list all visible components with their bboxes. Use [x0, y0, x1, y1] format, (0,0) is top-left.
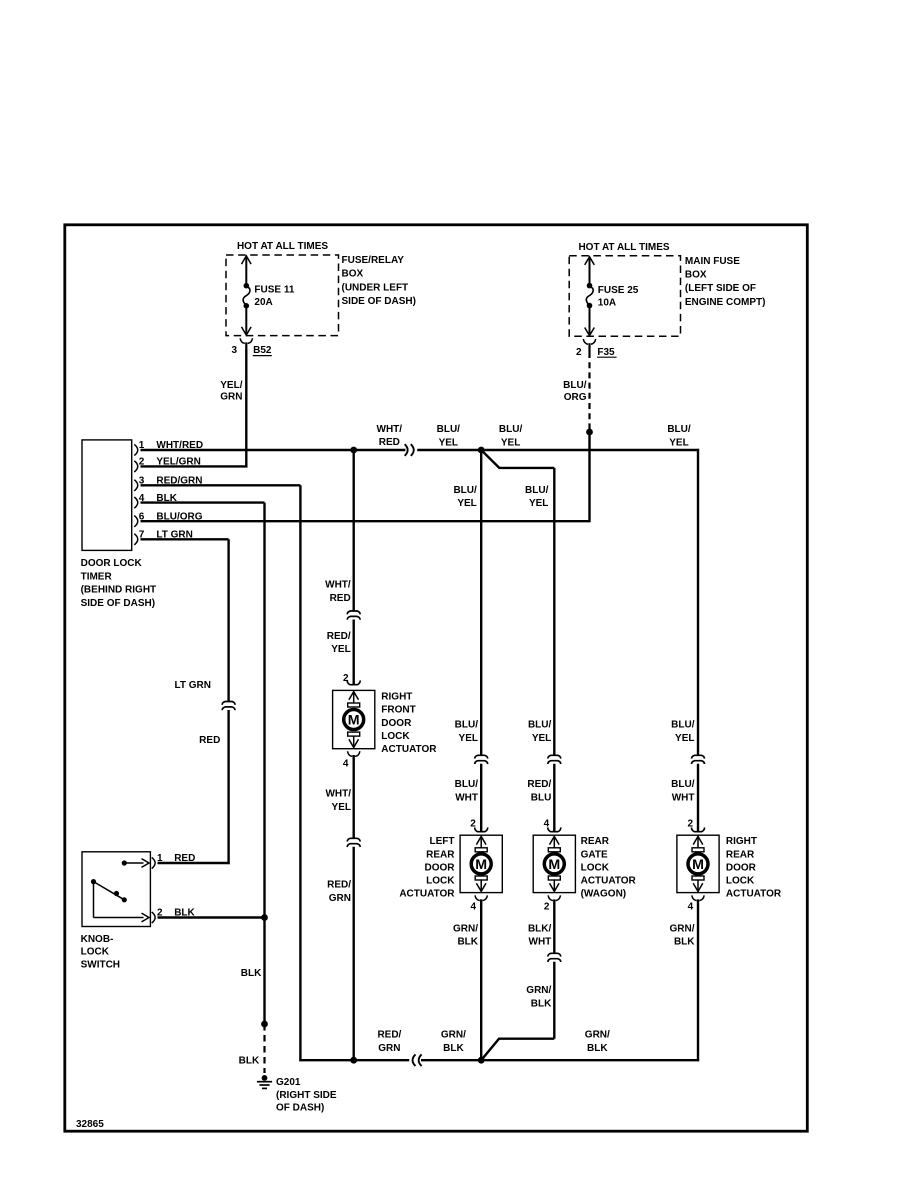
wire: bottom rail right segment (GRN/BLK)	[421, 1059, 699, 1061]
connector at rear gate actuator pin 4	[548, 827, 561, 831]
connector at right rear actuator pin 4	[692, 895, 697, 900]
svg-text:RED/: RED/	[327, 880, 351, 891]
svg-text:OF DASH): OF DASH)	[276, 1102, 324, 1113]
svg-text:BLU/: BLU/	[671, 719, 695, 730]
knob switch pin 1 connector	[152, 857, 155, 868]
svg-text:KNOB-: KNOB-	[81, 934, 114, 945]
wire: BLU/ORG dashed drop from F35	[588, 352, 590, 432]
junction dot WHT/RED branch	[350, 447, 357, 454]
svg-text:WHT: WHT	[672, 792, 695, 803]
main fuse box F35 enclosure (dashed)	[569, 256, 680, 336]
switch arrow to pin 1	[124, 862, 143, 864]
svg-text:BLU/: BLU/	[453, 485, 477, 496]
svg-text:BLU/: BLU/	[437, 424, 461, 435]
wire: GRN/BLK below left rear actuator	[480, 899, 482, 1060]
svg-text:YEL: YEL	[331, 644, 350, 655]
svg-text:DOOR LOCK: DOOR LOCK	[81, 558, 143, 569]
junction dot BLK splice	[261, 1021, 268, 1028]
wire: fuse 11 feed (vertical, arrows up/down)	[245, 256, 247, 284]
switch contact dot pin1	[122, 860, 127, 865]
in-line connector (BLU/YEL to BLU/WHT) left rear	[475, 755, 488, 758]
svg-text:BLU/: BLU/	[563, 380, 587, 391]
svg-text:LEFT: LEFT	[430, 836, 455, 847]
wire: BLU/ORG pin6 to fuse F35 drop	[141, 520, 590, 522]
svg-text:GATE: GATE	[581, 849, 608, 860]
svg-text:YEL: YEL	[457, 498, 476, 509]
in-line connector (WHT/YEL to RED/GRN)	[347, 838, 360, 841]
svg-text:2: 2	[576, 347, 582, 358]
wire: BLK pin4 down to knob switch junction	[141, 501, 265, 503]
connector at right front actuator pin 4	[348, 751, 353, 756]
svg-text:REAR: REAR	[581, 836, 610, 847]
svg-text:LT GRN: LT GRN	[175, 680, 211, 691]
wire: F35 pigtail	[588, 343, 590, 352]
svg-text:RED/: RED/	[527, 779, 551, 790]
svg-text:WHT: WHT	[529, 937, 552, 948]
svg-text:BLK: BLK	[531, 998, 552, 1009]
svg-text:1: 1	[157, 853, 163, 864]
svg-text:ACTUATOR: ACTUATOR	[399, 889, 455, 900]
wire: RED/GRN drop to bottom rail	[353, 847, 355, 1060]
junction dot BLU/YEL branch (left rear feed)	[478, 447, 485, 454]
svg-text:G201: G201	[276, 1077, 301, 1088]
svg-text:DOOR: DOOR	[381, 718, 412, 729]
svg-text:HOT AT ALL TIMES: HOT AT ALL TIMES	[237, 241, 328, 252]
connector at right rear actuator pin 2	[691, 827, 704, 831]
svg-text:4: 4	[470, 902, 476, 913]
svg-text:LOCK: LOCK	[726, 876, 755, 887]
switch common dot	[91, 879, 96, 884]
rear gate lock actuator U3	[533, 835, 575, 892]
svg-text:BLU/: BLU/	[528, 719, 552, 730]
svg-text:BLK/: BLK/	[528, 923, 552, 934]
in-line connector (BLU/YEL to BLU/WHT) right rear	[692, 755, 705, 758]
switch wire to pin 2	[93, 882, 95, 918]
timer pin 6 connector	[134, 516, 137, 527]
svg-text:F35: F35	[597, 347, 615, 358]
svg-text:(UNDER LEFT: (UNDER LEFT	[342, 282, 409, 293]
junction dot bottom rail at GRN/BLK merge	[478, 1057, 485, 1064]
connector at left rear actuator pin 2	[475, 827, 488, 831]
fuse F11 symbol	[244, 283, 250, 289]
svg-text:SWITCH: SWITCH	[81, 960, 120, 971]
wire: RED/GRN pin3 to bottom rail	[141, 484, 301, 486]
connector at rear gate actuator pin 2	[548, 895, 553, 900]
svg-text:RED: RED	[379, 437, 400, 448]
wire: BLK knob pin2 to junction	[158, 916, 265, 918]
svg-text:ACTUATOR: ACTUATOR	[726, 889, 782, 900]
svg-text:YEL: YEL	[669, 437, 688, 448]
svg-text:10A: 10A	[598, 298, 616, 309]
svg-text:20A: 20A	[254, 297, 272, 308]
svg-text:SIDE OF DASH): SIDE OF DASH)	[342, 296, 416, 307]
svg-text:YEL: YEL	[459, 733, 478, 744]
svg-text:BOX: BOX	[342, 269, 364, 280]
svg-text:WHT/: WHT/	[325, 789, 351, 800]
svg-text:(LEFT SIDE OF: (LEFT SIDE OF	[685, 283, 756, 294]
svg-text:4: 4	[688, 902, 694, 913]
svg-text:BLK: BLK	[241, 968, 262, 979]
wire: BLU/WHT into left rear actuator	[480, 764, 482, 832]
svg-text:GRN: GRN	[378, 1043, 400, 1054]
wire: BLK/WHT below rear gate actuator	[553, 899, 555, 953]
junction dot BLK	[261, 914, 268, 921]
svg-text:BLU/: BLU/	[499, 424, 523, 435]
wire: fuse 25 feed (vertical, arrows up/down)	[589, 257, 591, 285]
svg-text:BLU: BLU	[531, 792, 552, 803]
fuse/relay box B52 enclosure (dashed)	[226, 255, 339, 336]
svg-text:GRN: GRN	[220, 392, 242, 403]
switch blade (diagonal with dots)	[94, 882, 125, 900]
svg-text:MAIN FUSE: MAIN FUSE	[685, 256, 740, 267]
svg-text:YEL: YEL	[529, 498, 548, 509]
wire: RED/YEL into actuator pin 2	[353, 620, 355, 685]
svg-text:DOOR: DOOR	[726, 862, 757, 873]
svg-text:BLK: BLK	[443, 1043, 464, 1054]
ground G201 symbol	[262, 1075, 268, 1081]
svg-text:FUSE 11: FUSE 11	[254, 285, 294, 296]
svg-text:GRN/: GRN/	[453, 923, 478, 934]
svg-text:ACTUATOR: ACTUATOR	[581, 876, 637, 887]
svg-text:M: M	[475, 857, 487, 873]
svg-text:TIMER: TIMER	[81, 571, 113, 582]
svg-text:YEL/: YEL/	[220, 380, 242, 391]
svg-text:BLU/: BLU/	[525, 485, 549, 496]
svg-text:FUSE/RELAY: FUSE/RELAY	[342, 255, 405, 266]
svg-text:ACTUATOR: ACTUATOR	[381, 744, 437, 755]
svg-text:BLK: BLK	[239, 1055, 260, 1066]
wire: BLK down from junction	[263, 918, 265, 1025]
svg-text:GRN/: GRN/	[526, 985, 551, 996]
svg-text:2: 2	[687, 819, 693, 830]
svg-text:RIGHT: RIGHT	[726, 836, 757, 847]
wire: GRN/BLK below right rear actuator	[697, 899, 699, 1061]
svg-text:32865: 32865	[76, 1119, 104, 1130]
svg-text:M: M	[692, 857, 704, 873]
svg-text:4: 4	[544, 819, 550, 830]
wire: diagonal split to rear gate feed	[481, 450, 554, 468]
knob switch pin 2 connector	[152, 912, 155, 923]
wire: BLU/YEL drop to left rear actuator	[480, 450, 482, 755]
in-line connector (BLK/WHT to GRN/BLK) rear gate	[548, 953, 561, 956]
connector F35 (female horns)	[583, 339, 588, 344]
wire: BLU/ORG solid drop to pin6 rail	[588, 432, 590, 522]
svg-text:YEL: YEL	[675, 733, 694, 744]
svg-text:FRONT: FRONT	[381, 705, 415, 716]
svg-text:BLU/: BLU/	[667, 424, 691, 435]
wire: RED/BLU into rear gate actuator	[553, 764, 555, 832]
wire: BLU/YEL main segment	[417, 449, 699, 451]
timer pin 4 connector	[134, 497, 137, 508]
svg-text:REAR: REAR	[426, 849, 455, 860]
svg-text:M: M	[348, 713, 360, 729]
fuse F25 symbol	[587, 283, 593, 289]
wire: GRN/BLK rear gate to bottom diagonal	[553, 962, 555, 1039]
svg-text:LOCK: LOCK	[81, 947, 110, 958]
left rear door lock actuator U2	[460, 835, 502, 892]
svg-text:ORG: ORG	[564, 392, 587, 403]
svg-text:LOCK: LOCK	[426, 876, 455, 887]
svg-text:BLK: BLK	[587, 1043, 608, 1054]
wire: BLU/YEL drop to right rear actuator	[697, 449, 699, 755]
wire: BLU/YEL drop to rear gate actuator	[553, 468, 555, 755]
svg-text:M: M	[548, 857, 560, 873]
svg-text:3: 3	[231, 345, 237, 356]
wire: B52 pigtail	[245, 342, 247, 351]
svg-text:LOCK: LOCK	[381, 731, 410, 742]
svg-text:RED/: RED/	[377, 1030, 401, 1041]
knob-lock switch box	[82, 852, 150, 927]
svg-text:WHT/: WHT/	[325, 580, 351, 591]
svg-text:BLU/: BLU/	[455, 779, 479, 790]
junction dot bottom rail at RED/GRN drop	[350, 1057, 357, 1064]
svg-text:2: 2	[544, 902, 550, 913]
svg-text:REAR: REAR	[726, 849, 755, 860]
svg-text:WHT: WHT	[455, 792, 478, 803]
svg-text:YEL: YEL	[439, 437, 458, 448]
svg-text:WHT/: WHT/	[377, 424, 403, 435]
svg-text:GRN: GRN	[329, 893, 351, 904]
svg-text:HOT AT ALL TIMES: HOT AT ALL TIMES	[578, 242, 669, 253]
svg-text:(BEHIND RIGHT: (BEHIND RIGHT	[81, 585, 157, 596]
svg-text:4: 4	[343, 759, 349, 770]
svg-text:GRN/: GRN/	[670, 923, 695, 934]
svg-text:RED/: RED/	[327, 631, 351, 642]
svg-text:BOX: BOX	[685, 270, 707, 281]
wire: BLK dashed to ground	[263, 1024, 265, 1073]
connector at right front actuator pin 2	[347, 680, 360, 684]
svg-text:(WAGON): (WAGON)	[581, 889, 627, 900]
connector B52 (female horns)	[240, 338, 245, 343]
svg-text:RED: RED	[330, 593, 351, 604]
svg-text:BLU/: BLU/	[671, 779, 695, 790]
wire: LT GRN pin7 down (upper part)	[141, 538, 229, 540]
svg-text:YEL: YEL	[532, 733, 551, 744]
timer pin 1 connector	[134, 444, 137, 455]
svg-text:ENGINE COMPT): ENGINE COMPT)	[685, 297, 766, 308]
in-line connector on main wire (double arcs)	[405, 444, 408, 456]
right rear door lock actuator U4	[677, 835, 719, 892]
svg-text:GRN/: GRN/	[585, 1030, 610, 1041]
svg-text:BLK: BLK	[674, 937, 695, 948]
svg-text:FUSE 25: FUSE 25	[598, 285, 639, 296]
svg-text:BLK: BLK	[457, 937, 478, 948]
wire: RED down to knob switch pin 1	[227, 710, 229, 864]
door lock timer box	[82, 440, 132, 551]
svg-text:BLU/: BLU/	[455, 719, 479, 730]
in-line connector on bottom rail (double arcs)	[413, 1054, 416, 1066]
right front door lock actuator U1	[333, 690, 375, 748]
wire: WHT/RED pin1 horizontal segment	[141, 449, 406, 451]
svg-text:RED: RED	[174, 853, 195, 864]
svg-text:SIDE OF DASH): SIDE OF DASH)	[81, 598, 155, 609]
timer pin 7 connector	[134, 534, 137, 545]
svg-text:GRN/: GRN/	[441, 1030, 466, 1041]
svg-text:RIGHT: RIGHT	[381, 692, 412, 703]
svg-text:RED: RED	[199, 735, 220, 746]
wire: WHT/RED drop to right front actuator	[353, 450, 355, 611]
connector at left rear actuator pin 4	[475, 895, 480, 900]
svg-text:YEL: YEL	[332, 802, 351, 813]
in-line connector on LT GRN/RED wire	[222, 702, 235, 705]
svg-text:B52: B52	[253, 345, 272, 356]
svg-text:DOOR: DOOR	[425, 862, 456, 873]
timer pin 2 connector	[134, 461, 137, 472]
timer pin 3 connector	[134, 480, 137, 491]
svg-text:(RIGHT SIDE: (RIGHT SIDE	[276, 1090, 337, 1101]
wire: YEL/GRN pin2 to fuse B52	[141, 465, 248, 467]
wire: bottom rail left segment (RED/GRN)	[354, 1059, 410, 1061]
svg-text:YEL: YEL	[501, 437, 520, 448]
junction dot BLU/ORG splice	[586, 429, 593, 436]
in-line connector (BLU/YEL to RED/BLU) rear gate	[548, 755, 561, 758]
wire: WHT/YEL below right front actuator	[353, 755, 355, 838]
wire: BLU/WHT into right rear actuator	[697, 764, 699, 832]
in-line connector (WHT/RED to RED/YEL)	[347, 611, 360, 614]
svg-text:LOCK: LOCK	[581, 862, 610, 873]
